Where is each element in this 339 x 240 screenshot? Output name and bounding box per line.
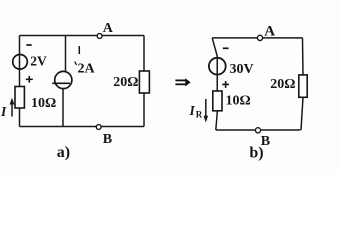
resistor 10Ω (circuit b) bbox=[213, 91, 222, 111]
value label 20Ω (circuit b) bbox=[270, 77, 295, 92]
wire: circuit a middle branch upper bbox=[65, 36, 67, 73]
voltage source 30V circle bbox=[209, 58, 226, 75]
polarity minus of 2V bbox=[26, 44, 31, 46]
tick above 2A bbox=[78, 46, 80, 54]
current arrow I (circuit a) bbox=[10, 98, 15, 117]
wire: circuit a right branch bbox=[143, 36, 145, 127]
value label 10Ω (circuit a) bbox=[31, 96, 56, 111]
node label B (circuit a) bbox=[103, 132, 112, 147]
current source 2A circle bbox=[52, 71, 72, 88]
wire: circuit a middle branch lower bbox=[62, 88, 64, 127]
wire: circuit a bottom wire bbox=[20, 126, 145, 128]
svg-text:20Ω: 20Ω bbox=[113, 75, 138, 90]
svg-text:2V: 2V bbox=[30, 53, 47, 68]
svg-text:30V: 30V bbox=[230, 62, 254, 77]
svg-text:10Ω: 10Ω bbox=[31, 96, 56, 111]
resistor 20Ω (circuit b) bbox=[299, 75, 307, 97]
node label B (circuit b) bbox=[261, 134, 270, 149]
resistor 10Ω (circuit a) bbox=[15, 87, 24, 109]
value label 30V bbox=[230, 62, 254, 77]
svg-text:A: A bbox=[264, 23, 275, 39]
current label IR (circuit b) bbox=[189, 103, 203, 119]
svg-text:R: R bbox=[196, 110, 203, 120]
voltage source 2V circle bbox=[13, 55, 28, 70]
wire: circuit b right branch bbox=[301, 38, 303, 130]
value label 2A bbox=[78, 61, 96, 76]
node label A (circuit a) bbox=[103, 21, 114, 36]
small tick left of 2A bbox=[75, 62, 77, 66]
polarity plus of 30V bbox=[222, 81, 229, 88]
svg-text:A: A bbox=[103, 21, 114, 36]
node B (circuit a) bbox=[96, 125, 101, 130]
wire: circuit a left branch bbox=[19, 36, 21, 127]
svg-text:I: I bbox=[0, 104, 7, 119]
node label A (circuit b) bbox=[264, 23, 275, 39]
svg-text:10Ω: 10Ω bbox=[226, 94, 251, 109]
polarity plus of 2V bbox=[26, 76, 33, 83]
node B (circuit b) bbox=[255, 128, 260, 133]
wire: circuit a top wire bbox=[20, 35, 145, 37]
caption b) bbox=[249, 144, 263, 161]
node A (circuit a) bbox=[97, 34, 102, 39]
node A (circuit b) bbox=[257, 35, 262, 40]
svg-text:2A: 2A bbox=[78, 61, 96, 76]
arrow: implies double arrow bbox=[175, 78, 190, 86]
resistor 20Ω (circuit a) bbox=[139, 71, 149, 93]
current arrow IR (circuit b) bbox=[204, 99, 209, 123]
wire: circuit b top wire bbox=[212, 37, 302, 39]
value label 2V bbox=[30, 53, 47, 68]
svg-text:a): a) bbox=[57, 144, 70, 161]
wire: circuit b bottom wire bbox=[216, 129, 301, 131]
svg-text:B: B bbox=[103, 132, 112, 147]
polarity minus of 30V bbox=[223, 47, 229, 49]
current label I (circuit a) bbox=[0, 104, 7, 119]
caption a) bbox=[57, 144, 70, 161]
value label 10Ω (circuit b) bbox=[226, 94, 251, 109]
svg-text:20Ω: 20Ω bbox=[270, 77, 295, 92]
svg-text:I: I bbox=[189, 103, 196, 118]
value label 20Ω (circuit a) bbox=[113, 75, 138, 90]
wire: circuit b left branch bbox=[212, 38, 217, 130]
svg-text:b): b) bbox=[249, 144, 263, 161]
